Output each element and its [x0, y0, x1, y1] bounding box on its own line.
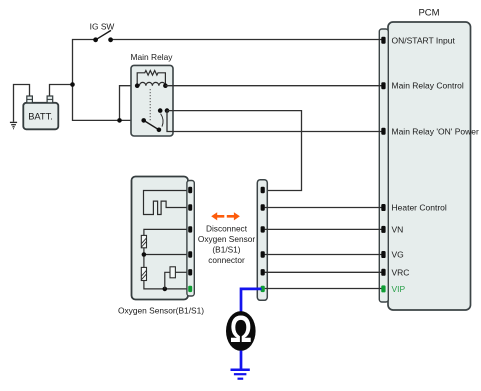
node coil right — [163, 83, 168, 88]
relay armature — [144, 120, 159, 129]
harness pin VIP (green) — [261, 286, 265, 292]
svg-text:VG: VG — [392, 250, 404, 260]
ohmmeter body — [226, 311, 256, 351]
wire resistor junction — [144, 248, 189, 268]
PCM U1 box — [379, 22, 470, 310]
resistor sensor lower — [141, 267, 146, 280]
node relay armature tip — [157, 128, 162, 133]
disconnect arrows (orange) — [211, 212, 240, 220]
node coil left — [135, 83, 140, 88]
wire harness pin5 to PCM VRC — [265, 271, 382, 273]
wire harness pin4 to PCM VG — [265, 254, 382, 256]
node relay NO contact — [158, 108, 163, 113]
svg-text:Main Relay Control: Main Relay Control — [392, 81, 464, 91]
svg-text:BATT.: BATT. — [28, 112, 53, 122]
node relay output — [165, 108, 170, 113]
svg-text:ON/START Input: ON/START Input — [392, 35, 456, 45]
heater element — [170, 267, 175, 278]
wire harness pin2 to PCM Heater Control — [265, 207, 382, 209]
svg-text:Heater Control: Heater Control — [392, 202, 447, 212]
svg-text:VN: VN — [392, 225, 404, 235]
PCM pins — [381, 37, 385, 276]
svg-text:Oxygen Sensor(B1/S1): Oxygen Sensor(B1/S1) — [118, 306, 204, 316]
node sensor heater junction — [163, 287, 168, 292]
harness pins — [261, 187, 265, 276]
wire relay coil out to PCM Main Relay Control — [165, 85, 381, 87]
svg-text:PCM: PCM — [418, 7, 439, 18]
wire battery positive to bus — [50, 85, 73, 97]
oxygen sensor B1/S1 box — [132, 177, 189, 300]
resistor sensor upper — [141, 235, 146, 247]
PCM pin labels — [392, 35, 479, 277]
connector (harness side) — [257, 180, 267, 301]
wire heater branch — [165, 272, 170, 289]
node relay feed junction — [117, 118, 122, 123]
node relay common — [141, 118, 146, 123]
ground (battery) — [10, 122, 17, 128]
connector (sensor side) — [187, 181, 194, 297]
sensor pins — [188, 187, 192, 276]
sensor element square wave — [144, 191, 190, 215]
inductor (relay coil) — [139, 82, 165, 85]
wire harness pin3 to PCM VN — [265, 228, 382, 230]
svg-text:Main Relay 'ON' Power: Main Relay 'ON' Power — [392, 126, 479, 136]
wire relay coil feed — [120, 86, 138, 121]
relay K1 Main Relay box — [131, 65, 173, 136]
relay contact arc — [161, 114, 163, 127]
svg-text:Oxygen Sensor: Oxygen Sensor — [198, 234, 255, 244]
PCM pin VIP (green) — [381, 285, 385, 292]
wire harness pin6 to PCM VIP — [265, 288, 382, 290]
svg-text:Disconnect: Disconnect — [206, 224, 248, 234]
relay armature link (dotted) — [149, 89, 151, 122]
wire relay output to PCM Main Relay ON Power — [167, 111, 382, 132]
svg-text:VIP: VIP — [392, 284, 406, 294]
svg-text:connector: connector — [208, 255, 245, 265]
wire ohmmeter to ground (blue) — [240, 351, 243, 369]
wire switch to PCM ON/START Input — [111, 39, 382, 41]
svg-text:VRC: VRC — [392, 267, 410, 277]
resistor (relay parallel resistor) — [137, 71, 165, 86]
svg-text:(B1/S1): (B1/S1) — [212, 245, 240, 255]
wire ohmmeter lead (blue) — [241, 289, 262, 312]
wire sensor pin3 to resistor — [144, 229, 189, 235]
switch IG SW — [93, 30, 113, 42]
wire IG SW feed bus from switch down to relay common — [73, 40, 144, 121]
svg-text:Main Relay: Main Relay — [131, 52, 174, 62]
ground (ohmmeter, blue) — [231, 370, 250, 379]
disconnect note text — [198, 224, 255, 266]
wire sensor bottom line to green pin — [144, 281, 189, 289]
node battery junction — [70, 82, 75, 87]
wire relay output to connector pin1 — [167, 111, 302, 191]
battery BATT. — [23, 96, 58, 129]
node sensor divider junction — [142, 252, 147, 257]
svg-text:IG SW: IG SW — [90, 22, 115, 32]
svg-text:Ω: Ω — [230, 309, 252, 351]
wire heater to pin5 — [175, 271, 189, 273]
wire battery negative to ground — [14, 85, 30, 122]
sensor pin VIP (green) — [188, 286, 192, 292]
